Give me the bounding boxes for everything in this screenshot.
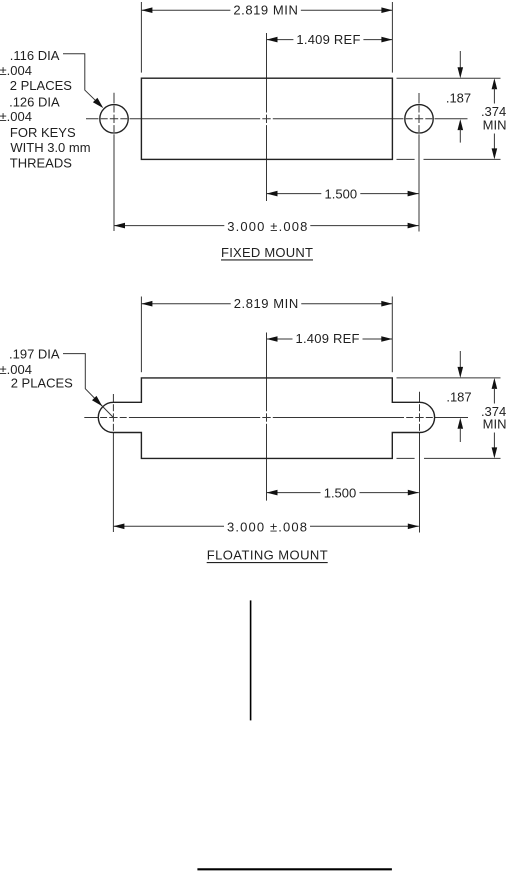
svg-text:±.004: ±.004 (0, 63, 32, 78)
svg-text:.187: .187 (446, 390, 471, 405)
svg-text:2 PLACES: 2 PLACES (11, 376, 73, 391)
svg-text:.197 DIA: .197 DIA (9, 347, 60, 362)
svg-text:.126 DIA: .126 DIA (9, 95, 60, 110)
svg-text:2.819 MIN: 2.819 MIN (234, 296, 299, 311)
svg-text:FOR KEYS: FOR KEYS (10, 125, 76, 140)
svg-text:FLOATING MOUNT: FLOATING MOUNT (207, 548, 328, 563)
svg-text:FIXED MOUNT: FIXED MOUNT (221, 245, 313, 260)
svg-text:MIN: MIN (483, 118, 506, 133)
svg-text:.187: .187 (446, 91, 471, 106)
svg-text:2 PLACES: 2 PLACES (10, 78, 72, 93)
svg-text:1.409 REF: 1.409 REF (296, 331, 360, 346)
svg-text:1.500: 1.500 (325, 187, 358, 202)
svg-text:±.004: ±.004 (0, 109, 32, 124)
svg-text:.116 DIA: .116 DIA (10, 48, 60, 63)
svg-text:THREADS: THREADS (10, 155, 72, 170)
svg-text:2.819 MIN: 2.819 MIN (233, 2, 298, 17)
svg-text:1.500: 1.500 (324, 486, 357, 501)
svg-text:WITH 3.0 mm: WITH 3.0 mm (10, 140, 90, 155)
svg-text:1.409 REF: 1.409 REF (296, 32, 360, 47)
svg-text:MIN: MIN (483, 416, 506, 431)
